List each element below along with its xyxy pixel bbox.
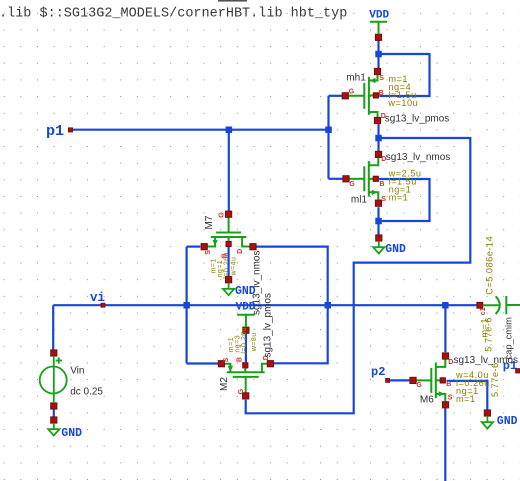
svg-text:sg13_lv_pmos: sg13_lv_pmos (385, 114, 449, 125)
wire to mh1 gate (329, 95, 343, 97)
svg-text:B: B (237, 357, 244, 362)
VDD top (369, 10, 389, 41)
svg-text:l=0.26u: l=0.26u (241, 327, 248, 354)
svg-text:VDD: VDD (369, 10, 389, 22)
wire vdd to mh1 source (377, 40, 379, 68)
wire M2 vdd to bulk (245, 333, 247, 362)
wire p2 to M6 gate (390, 379, 410, 381)
wire mh1 drain to ml1 drain (377, 124, 379, 152)
node M7 gate junction (226, 127, 233, 134)
svg-text:sg13_lv_nmos: sg13_lv_nmos (386, 152, 450, 163)
svg-text:m=1: m=1 (456, 394, 476, 404)
svg-text:D: D (237, 249, 244, 254)
svg-text:M6: M6 (420, 395, 434, 406)
svg-text:B: B (446, 381, 451, 388)
svg-text:mh1: mh1 (346, 72, 366, 83)
svg-text:ml1: ml1 (351, 195, 368, 206)
svg-text:c1: c1 (480, 307, 487, 315)
wire to M7 source (187, 246, 201, 248)
wire ml1 bulk loop (379, 179, 430, 221)
node M6 drain junction (442, 302, 449, 309)
VDD of M2 (236, 301, 256, 333)
svg-text:sg13_lv_pmos: sg13_lv_pmos (262, 293, 273, 357)
svg-text:G: G (416, 382, 422, 389)
svg-text:.lib $::SG13G2_MODELS/cornerHB: .lib $::SG13G2_MODELS/cornerHBT.lib hbt_… (0, 6, 347, 21)
svg-text:w=8u: w=8u (251, 332, 258, 352)
wire ml1 source to gnd (377, 207, 379, 235)
svg-text:S: S (223, 357, 230, 362)
wire M7 drain to M2 drain (257, 247, 328, 364)
wire to ml1 gate (329, 178, 344, 180)
wire M7 bulk to gnd (228, 247, 230, 277)
svg-text:m=1: m=1 (389, 193, 409, 203)
ground of M6 bulk (482, 410, 518, 429)
svg-text:5.77e-6: 5.77e-6 (484, 317, 494, 352)
svg-text:5.77e-6: 5.77e-6 (490, 362, 500, 397)
net label vi (90, 291, 105, 307)
svg-text:w=10u: w=10u (387, 98, 418, 108)
node left rail junction (183, 302, 190, 309)
wire p1 horizontal (70, 129, 328, 131)
wire vi rail horizontal (53, 304, 477, 306)
svg-text:G: G (349, 181, 355, 188)
node output junction (375, 135, 382, 142)
svg-text:GND: GND (235, 285, 256, 298)
wire M6 drain vertical (444, 305, 446, 352)
wire gate rail vertical (327, 96, 329, 179)
svg-text:p1: p1 (503, 359, 517, 373)
svg-text:dc 0.25: dc 0.25 (70, 386, 103, 397)
svg-text:GND: GND (497, 415, 518, 428)
wire left rail vertical (186, 247, 188, 364)
svg-text:S: S (379, 75, 384, 82)
ground of ml1 (373, 235, 406, 256)
transistor M6 (nmos) (410, 353, 518, 408)
capacitor c1 (cap_cmim) (477, 236, 520, 397)
voltage source Vin (40, 350, 104, 409)
wire output node feedback (246, 138, 471, 413)
wire vi rail to Vin (52, 305, 54, 350)
svg-text:C=5.086e-14: C=5.086e-14 (485, 236, 495, 295)
svg-text:S: S (448, 394, 453, 401)
junction nodes (183, 51, 448, 309)
svg-text:M2: M2 (219, 377, 230, 391)
transistor M7 (nmos rotated) (201, 211, 262, 315)
transistor M2 (pmos rotated) (218, 293, 273, 399)
svg-text:p2: p2 (371, 365, 385, 379)
wire Vin minus to gnd (53, 409, 55, 417)
node mid rail junction (325, 302, 332, 309)
svg-text:B: B (379, 90, 384, 97)
svg-text:S: S (381, 196, 386, 203)
node vdd junction (375, 51, 382, 58)
svg-text:M7: M7 (204, 215, 215, 229)
stray overline mark (218, 0, 247, 2)
wire mh1 bulk loop (379, 54, 430, 96)
svg-text:G: G (238, 388, 245, 394)
ground of M7 (223, 277, 256, 299)
node gate rail junction (325, 127, 332, 134)
wire to M2 source (187, 362, 219, 364)
svg-text:B: B (379, 181, 384, 188)
wire M6 bulk loop (447, 381, 488, 410)
svg-text:p1: p1 (46, 123, 64, 140)
wire M7 gate vertical (228, 130, 230, 212)
svg-text:VDD: VDD (236, 301, 256, 313)
wire M6 source down (444, 408, 446, 481)
pin p2 (371, 365, 390, 383)
svg-text:cap_cmim: cap_cmim (504, 317, 514, 360)
node ml1 source junction (375, 218, 382, 225)
svg-text:S: S (205, 250, 212, 255)
svg-text:Vin: Vin (70, 366, 84, 377)
svg-text:GND: GND (385, 243, 406, 256)
svg-text:G: G (349, 89, 355, 96)
pin p1 left (46, 123, 73, 140)
svg-text:w=4u: w=4u (230, 257, 237, 277)
transistor ml1 (nmos) (343, 151, 450, 206)
svg-text:G: G (218, 212, 225, 218)
svg-text:vi: vi (90, 291, 105, 305)
pin p1 right (503, 359, 520, 373)
svg-text:GND: GND (61, 427, 82, 440)
ground of Vin (48, 417, 82, 440)
transistor mh1 (pmos) (342, 68, 449, 124)
